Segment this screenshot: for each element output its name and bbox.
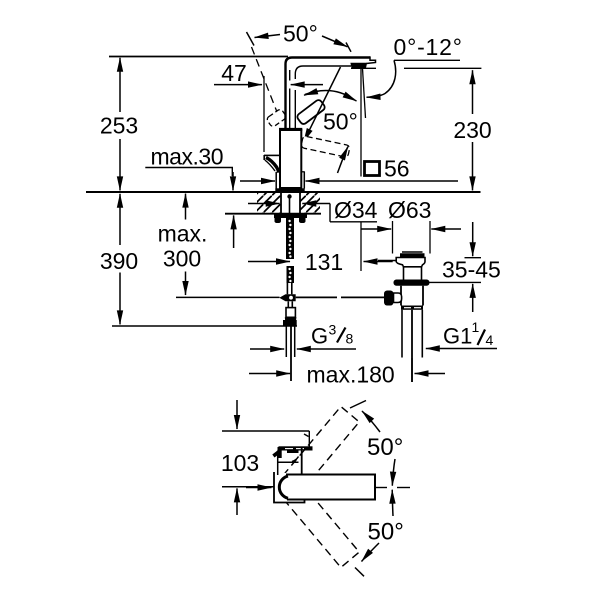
joint lower stub [287,301,289,307]
svg-text:max.30: max.30 [151,144,224,170]
0-12 underline [394,59,460,61]
plan centerline right [376,487,388,489]
handle dashed position lower right [301,136,350,158]
shank hole walls [280,192,282,214]
plan handle front hook [278,447,282,458]
plan handle tab [287,450,299,453]
svg-text:8: 8 [346,331,354,347]
threaded rod lower [287,266,295,283]
50 top left arrow [255,35,281,38]
svg-text:1: 1 [472,319,480,335]
aerator tilted 12deg line [363,69,366,119]
svg-text:300: 300 [163,246,201,272]
max30 down arrow [232,172,234,190]
103 top arrow [236,400,238,429]
diam63 arrows [361,228,391,230]
svg-text:35-45: 35-45 [442,257,501,283]
spout top extension line [109,56,288,58]
drain flange extension lines [392,221,394,254]
aerator vertical reference [360,69,362,177]
390 bottom reference line [112,325,297,327]
dashed spout position upper [283,407,359,491]
max300 up arrow [185,194,187,220]
plan centerline left arrow [246,487,272,489]
faucet body [280,130,301,188]
aerator level reference line [351,67,376,69]
50 top right tick [346,43,351,52]
upper 50 arc [350,401,366,409]
flange body [396,258,425,267]
spout middle line [289,70,291,81]
left bolt [275,218,282,223]
50 top right arrow [322,36,348,47]
svg-text:Ø63: Ø63 [388,197,431,223]
50 top left tick [247,32,255,46]
spout [286,58,371,132]
plan body box [274,472,305,503]
square56 dim arrows [240,180,275,182]
deck hatching left [257,193,281,213]
plan cartridge [277,451,279,476]
dimension 131 [248,261,290,263]
0-12 arc leader [367,60,396,97]
svg-text:0°-12°: 0°-12° [394,34,463,60]
47 right arrow [291,84,323,86]
plan spout round end [279,476,288,498]
svg-text:50°: 50° [323,109,358,135]
svg-text:max.: max. [158,221,208,247]
103 bottom reference line [222,486,274,488]
plan body right edge [301,448,303,475]
G1 1/4 arrow and underline [426,348,497,350]
svg-text:4: 4 [486,332,494,348]
svg-text:3: 3 [329,322,337,338]
inner 50 arc [305,91,354,100]
aerator block [351,63,367,68]
svg-text:47: 47 [221,60,247,86]
47 extension line [263,76,265,152]
seal ring [394,280,430,286]
max.180 dimension [249,373,290,375]
svg-text:131: 131 [305,249,343,275]
103 top reference line [222,430,309,432]
tailpipe [401,310,403,358]
spout inner line vertical [295,66,351,79]
dimension 230 [472,70,474,114]
rod joint [279,294,295,301]
deck bottom line [225,213,321,215]
G3/8 arrows [250,348,284,350]
handle swing line solid with arrow [304,67,341,142]
neck [403,267,405,280]
plan spout bar [286,475,375,500]
rod clamp [384,291,394,306]
right bolt [299,218,306,223]
103 bottom arrow [236,488,238,515]
dimension 35-45 [472,222,474,256]
max30 up arrow below deck [233,215,235,248]
svg-text:50°: 50° [283,21,318,47]
supply tube [285,326,287,357]
base bar [275,188,304,192]
svg-text:Ø34: Ø34 [334,197,378,223]
svg-text:G1: G1 [443,324,472,349]
lever port [394,293,402,303]
base plinth [275,172,277,189]
pop-up rod horizontal [296,296,337,298]
rod stub to joint [286,283,288,294]
svg-text:56: 56 [384,156,410,182]
handle solid position [296,99,326,126]
handle swing dashed line [252,47,278,112]
deck top line [86,191,481,193]
svg-text:230: 230 [453,117,491,143]
dimension 253 [119,58,121,112]
lever [264,154,280,156]
lower 50 arc [391,490,394,516]
drain body [400,286,402,306]
label square 56 [365,162,380,176]
handle dashed position upper left [266,108,287,127]
131 right extension line [360,222,362,271]
deck hatching right [301,193,321,213]
flange cap [400,253,425,257]
max300 down arrow [185,272,187,296]
G3/8 fitting [286,308,295,318]
dimension 390 [119,194,121,245]
svg-text:103: 103 [221,450,259,476]
plan handle bar [279,446,313,450]
svg-text:50°: 50° [367,434,403,461]
hose level line [176,296,280,298]
threaded rod upper [286,218,294,259]
svg-text:max.180: max.180 [307,362,395,388]
coupling nut [401,306,423,310]
svg-text:253: 253 [100,113,138,139]
dashed spout position lower [283,483,359,567]
curved arrow at dashed handle [338,147,349,174]
svg-text:G: G [311,324,328,349]
svg-text:390: 390 [100,248,138,274]
diam34 arrows [248,203,280,205]
washer plate [274,214,307,218]
svg-text:50°: 50° [368,519,404,546]
